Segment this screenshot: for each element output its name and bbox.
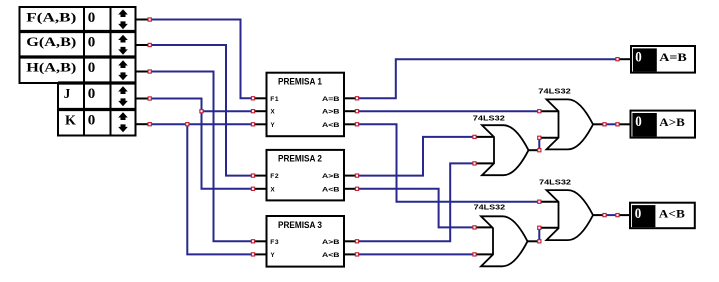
svg-text:74LS32: 74LS32 xyxy=(538,89,571,96)
svg-text:J: J xyxy=(64,87,71,102)
svg-text:A=B: A=B xyxy=(322,96,340,103)
svg-text:74LS32: 74LS32 xyxy=(474,205,506,212)
svg-text:Y: Y xyxy=(271,122,276,129)
svg-text:F(A,B): F(A,B) xyxy=(26,9,76,24)
svg-text:A>B: A>B xyxy=(322,239,340,246)
svg-text:74LS32: 74LS32 xyxy=(473,115,505,122)
svg-text:A<B: A<B xyxy=(659,209,685,221)
svg-text:A=B: A=B xyxy=(659,52,687,64)
svg-text:PREMISA 2: PREMISA 2 xyxy=(278,154,322,165)
svg-text:A>B: A>B xyxy=(322,109,340,116)
svg-text:F3: F3 xyxy=(270,239,279,246)
svg-text:0: 0 xyxy=(88,34,96,50)
svg-text:A<B: A<B xyxy=(322,252,340,259)
svg-text:F1: F1 xyxy=(270,96,279,103)
svg-text:PREMISA 3: PREMISA 3 xyxy=(278,220,322,231)
svg-text:A<B: A<B xyxy=(322,186,340,193)
svg-text:A>B: A>B xyxy=(322,173,340,180)
svg-text:0: 0 xyxy=(635,206,642,222)
svg-text:K: K xyxy=(65,114,76,129)
svg-text:0: 0 xyxy=(88,86,96,102)
svg-text:74LS32: 74LS32 xyxy=(539,180,571,187)
svg-text:0: 0 xyxy=(88,10,96,26)
svg-text:H(A,B): H(A,B) xyxy=(26,59,76,74)
svg-text:G(A,B): G(A,B) xyxy=(26,34,76,49)
svg-text:X: X xyxy=(271,109,276,116)
svg-text:0: 0 xyxy=(635,114,642,130)
svg-text:0: 0 xyxy=(88,60,96,76)
svg-text:0: 0 xyxy=(635,49,642,65)
svg-text:F2: F2 xyxy=(270,173,279,180)
svg-text:A>B: A>B xyxy=(659,117,685,129)
svg-text:A<B: A<B xyxy=(322,122,340,129)
svg-text:Y: Y xyxy=(271,252,276,259)
svg-text:PREMISA 1: PREMISA 1 xyxy=(278,77,323,88)
svg-text:0: 0 xyxy=(88,112,96,128)
svg-text:X: X xyxy=(271,186,276,193)
